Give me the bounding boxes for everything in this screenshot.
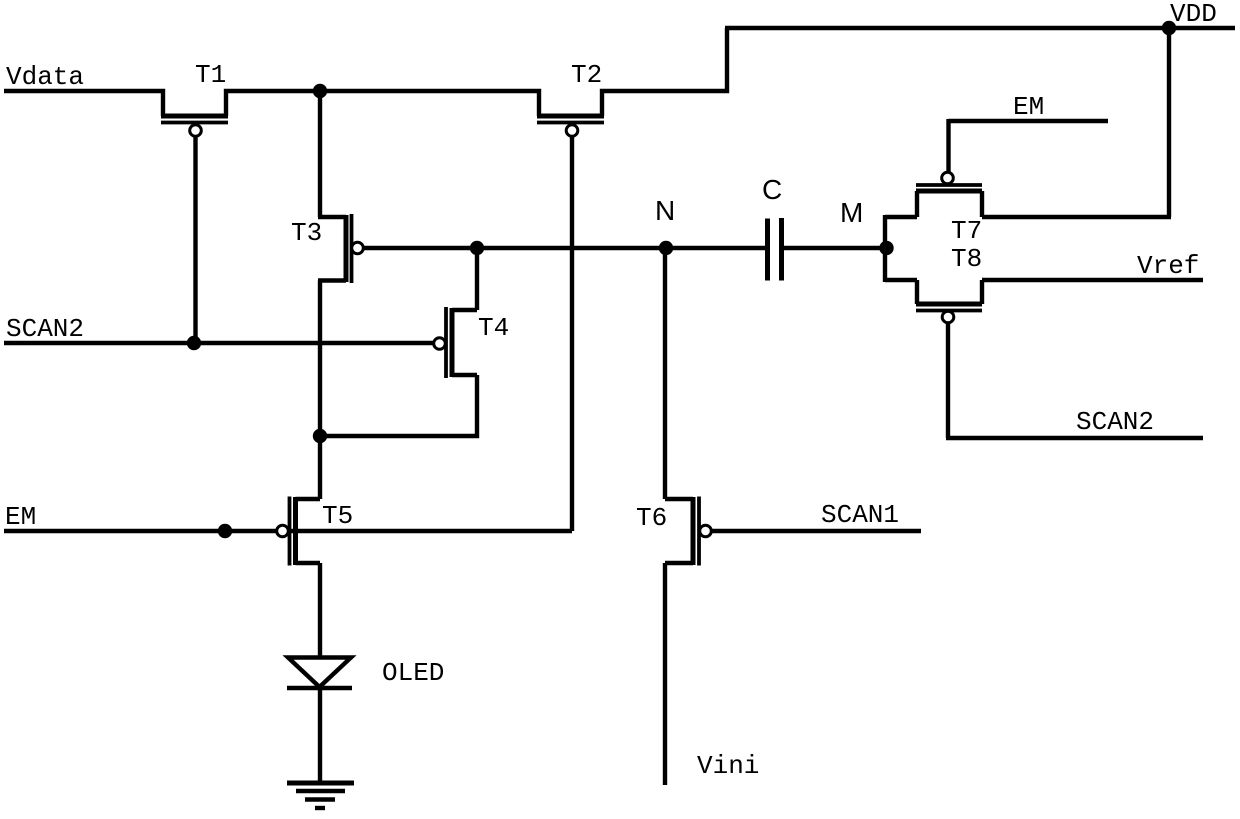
- wire T3 drain stub: [318, 278, 346, 282]
- svg-text:SCAN1: SCAN1: [821, 500, 899, 530]
- node N junction dot: [659, 241, 673, 255]
- wire T6 source stub: [665, 497, 693, 501]
- transistor T3 channel bar: [344, 215, 349, 282]
- svg-text:SCAN2: SCAN2: [6, 314, 84, 344]
- node dot gate junction: [470, 241, 484, 255]
- wire T6 drain down to Vini: [663, 563, 667, 785]
- wire EM left line: [4, 529, 572, 533]
- svg-text:EM: EM: [1013, 92, 1044, 122]
- wire junction down to T3: [318, 91, 322, 217]
- ground bar 3: [305, 797, 335, 801]
- wire T8 source stub: [885, 278, 917, 282]
- capacitor C left plate: [765, 219, 770, 281]
- svg-text:T4: T4: [478, 313, 509, 343]
- wire Vref line: [982, 278, 1203, 282]
- svg-text:T1: T1: [195, 60, 226, 90]
- svg-text:EM: EM: [5, 502, 36, 532]
- svg-text:OLED: OLED: [382, 658, 444, 688]
- wire SCAN1 line: [711, 529, 922, 533]
- transistor T8 gate bar: [916, 309, 982, 313]
- svg-text:T8: T8: [951, 244, 982, 274]
- ground bar 1: [287, 781, 354, 786]
- svg-text:T3: T3: [291, 218, 322, 248]
- wire T8 left riser: [915, 280, 919, 304]
- transistor T3 gate bubble: [352, 242, 364, 254]
- transistor T1 gate bubble: [190, 125, 202, 137]
- transistor T5 gate bar: [288, 497, 292, 566]
- transistor T6 gate bar: [697, 497, 701, 566]
- transistor T5 gate bubble: [277, 525, 289, 537]
- svg-text:T6: T6: [636, 503, 667, 533]
- wire T6 drain stub: [665, 561, 693, 565]
- svg-text:M: M: [840, 197, 863, 228]
- node VDD junction dot: [1162, 21, 1176, 35]
- wire T8 gate down to SCAN2: [946, 322, 950, 438]
- wire T7 source stub to M bar: [885, 215, 917, 219]
- transistor T1 gate bar: [161, 121, 228, 125]
- wire T4 drain stub: [452, 373, 477, 377]
- wire T1 gate to SCAN2: [193, 136, 197, 343]
- svg-text:SCAN2: SCAN2: [1076, 407, 1154, 437]
- wire SCAN2 bottom right line: [946, 436, 1203, 440]
- transistor T2 gate bubble: [566, 125, 578, 137]
- svg-text:T2: T2: [571, 60, 602, 90]
- svg-text:T5: T5: [322, 501, 353, 531]
- diode OLED triangle: [288, 658, 351, 688]
- transistor T2 channel bar: [537, 114, 604, 119]
- transistor T6 channel bar: [691, 497, 696, 565]
- capacitor C right plate: [779, 218, 784, 281]
- transistor T7 channel bar: [916, 189, 982, 194]
- wire SCAN2 left line: [4, 341, 435, 345]
- svg-text:Vini: Vini: [697, 751, 759, 781]
- transistor T6 gate bubble: [700, 525, 712, 537]
- transistor T4 gate bar: [444, 307, 448, 378]
- transistor T4 channel bar: [450, 308, 455, 377]
- wire VDD down to T7: [1167, 28, 1171, 217]
- svg-text:Vref: Vref: [1137, 251, 1199, 281]
- svg-text:Vdata: Vdata: [6, 62, 84, 92]
- wire junction down to T4: [475, 248, 479, 310]
- wire Vdata left segment: [4, 91, 163, 116]
- transistor T8 gate bubble: [942, 311, 954, 323]
- wire T5 drain down to OLED: [318, 563, 322, 658]
- wire OLED to ground: [318, 690, 322, 783]
- transistor T7 gate bar: [916, 183, 982, 187]
- ground bar 4: [315, 806, 325, 810]
- transistor T7 gate bubble: [942, 172, 954, 184]
- node dot diode junction on T3 line: [313, 429, 327, 443]
- wire T2 drain to VDD rail: [602, 28, 727, 116]
- wire T3 gate to node N: [363, 246, 766, 250]
- node M junction dot: [879, 241, 893, 255]
- ground bar 2: [296, 789, 345, 793]
- transistor T2 gate bar: [537, 121, 604, 125]
- wire capacitor to node M: [784, 246, 885, 250]
- wire T4 source stub: [452, 308, 477, 312]
- node dot on EM line: [218, 524, 232, 538]
- wire T3 source stub: [318, 215, 346, 219]
- node dot SCAN2 T1-gate junction: [187, 336, 201, 350]
- wire M vertical bar: [883, 215, 887, 282]
- svg-text:T7: T7: [951, 216, 982, 246]
- diode OLED cathode bar: [287, 686, 352, 690]
- wire EM down to T7 gate: [946, 119, 950, 173]
- wire T5 drain stub: [296, 561, 321, 565]
- wire node N down to T6: [663, 248, 667, 499]
- transistor T1 channel bar: [161, 114, 228, 119]
- svg-text:VDD: VDD: [1170, 0, 1217, 29]
- wire T8 right riser: [980, 280, 984, 304]
- wire T2 gate down to EM: [570, 136, 574, 531]
- svg-text:N: N: [655, 195, 675, 226]
- wire T7 left riser: [915, 191, 919, 217]
- svg-text:C: C: [762, 174, 782, 205]
- transistor T5 channel bar: [293, 497, 298, 565]
- wire VDD rail: [725, 26, 1235, 30]
- wire T1 drain to T2: [226, 91, 539, 116]
- wire T5 source stub: [296, 497, 321, 501]
- wire EM right line: [949, 119, 1109, 123]
- transistor T3 gate bar: [350, 214, 354, 283]
- node junction dot on Vdata line: [313, 84, 327, 98]
- wire T7 right riser: [980, 191, 984, 217]
- transistor T8 channel bar: [916, 302, 982, 307]
- wire T3 down through SCAN2 to T5: [318, 281, 322, 500]
- transistor T4 gate bubble: [434, 338, 446, 350]
- wire T7 drain to VDD vertical: [982, 215, 1171, 219]
- wire T4 drain down and left: [318, 375, 477, 436]
